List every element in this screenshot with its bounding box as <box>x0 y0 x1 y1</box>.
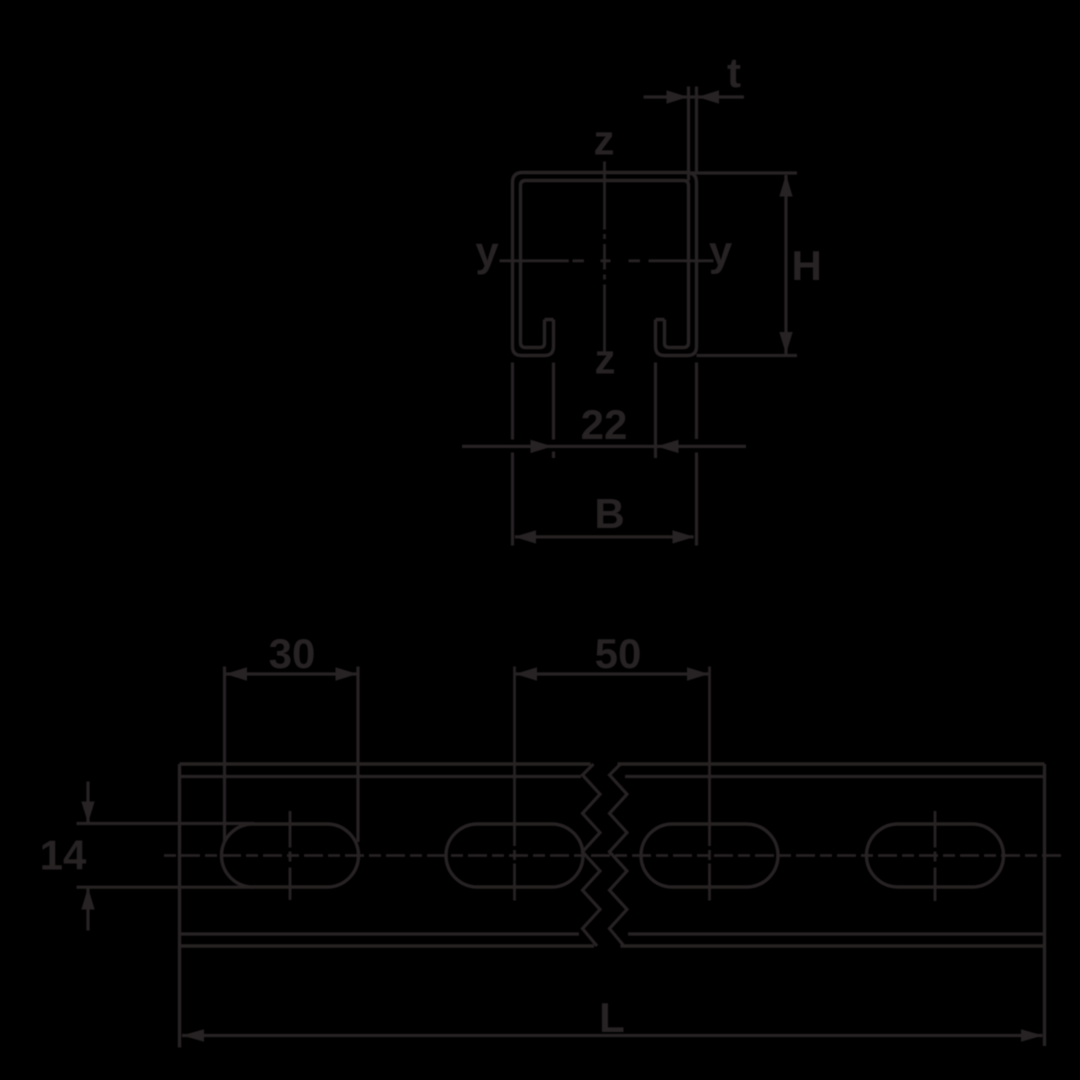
svg-text:z: z <box>594 117 615 164</box>
svg-text:30: 30 <box>269 630 316 677</box>
svg-text:L: L <box>599 994 625 1041</box>
svg-text:z: z <box>595 336 616 383</box>
svg-text:50: 50 <box>595 630 642 677</box>
svg-text:y: y <box>709 227 733 274</box>
svg-text:14: 14 <box>40 832 87 879</box>
svg-text:22: 22 <box>581 401 628 448</box>
svg-text:H: H <box>792 242 822 289</box>
svg-text:B: B <box>594 490 624 537</box>
svg-text:t: t <box>727 49 741 96</box>
svg-text:y: y <box>475 228 499 275</box>
